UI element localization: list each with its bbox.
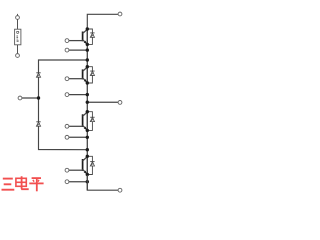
node: aux emitter tap of Q2 <box>86 93 89 96</box>
anti-parallel diode branch of Q3 <box>87 112 92 131</box>
gate terminal of Q3 <box>65 124 69 128</box>
wire <box>86 112 88 131</box>
wire (main bus) <box>86 29 88 190</box>
aux emitter terminal of Q1 <box>65 48 69 52</box>
anti-parallel diode D2 <box>90 71 94 75</box>
transistor Q2 <box>69 67 87 83</box>
aux emitter terminal of Q2 <box>65 93 69 97</box>
node: aux emitter tap of Q1 <box>86 48 89 51</box>
node: aux emitter tap of Q4 <box>86 180 89 183</box>
wire <box>87 175 118 190</box>
node: aux emitter tap of Q3 <box>86 136 89 139</box>
node: collector of Q3 <box>86 110 89 113</box>
wire (aux emitter lead of Q3) <box>69 136 87 138</box>
anti-parallel diode D3 <box>90 117 94 121</box>
node: emitter of Q2 <box>86 81 89 84</box>
wire <box>87 101 118 103</box>
wire (aux emitter lead of Q4) <box>69 181 87 183</box>
wire (aux emitter lead of Q2) <box>69 94 87 96</box>
wire <box>17 19 19 29</box>
wire (clamp bus) <box>39 60 88 150</box>
node: emitter of Q1 <box>86 43 89 46</box>
transistor Q1 <box>69 29 87 44</box>
wire <box>87 14 118 29</box>
clamp diode D5 <box>36 73 40 77</box>
node: collector of Q4 <box>86 155 89 158</box>
label: 三电平 (three-level) <box>2 176 44 191</box>
wire <box>86 29 88 44</box>
terminal AC output <box>118 101 122 105</box>
gate terminal of Q1 <box>65 39 69 43</box>
transistor Q3 <box>69 112 87 130</box>
anti-parallel diode D1 <box>90 33 94 37</box>
wire <box>86 156 88 174</box>
wire <box>22 97 39 99</box>
anti-parallel diode branch of Q4 <box>87 156 92 174</box>
transistor Q4 <box>69 157 87 175</box>
clamp diode D6 <box>36 122 40 126</box>
resistor R1 terminal (top) <box>16 16 20 20</box>
aux emitter terminal of Q4 <box>65 180 69 184</box>
node: clamp bottom on bus <box>86 148 89 151</box>
node: collector of Q2 <box>86 65 89 68</box>
node: emitter of Q4 <box>86 173 89 176</box>
anti-parallel diode branch of Q1 <box>87 29 92 44</box>
node: collector of Q1 <box>86 27 89 30</box>
node: AC tap <box>86 101 89 104</box>
resistor R1 <box>15 29 21 45</box>
node: emitter of Q3 <box>86 129 89 132</box>
wire <box>86 67 88 83</box>
wire (aux emitter lead of Q1) <box>69 49 87 51</box>
node: clamp top on bus <box>86 58 89 61</box>
wire (stub) <box>17 14 19 16</box>
gate terminal of Q4 <box>65 168 69 172</box>
anti-parallel diode D4 <box>90 162 94 166</box>
resistor R1 terminal (bottom) <box>16 54 20 58</box>
terminal N (neutral) <box>18 96 22 100</box>
anti-parallel diode branch of Q2 <box>87 67 92 83</box>
terminal DC- <box>118 188 122 192</box>
gate terminal of Q2 <box>65 77 69 81</box>
node N on clamp bus <box>37 96 40 99</box>
terminal DC+ <box>118 12 122 16</box>
wire <box>17 45 19 54</box>
aux emitter terminal of Q3 <box>65 135 69 139</box>
